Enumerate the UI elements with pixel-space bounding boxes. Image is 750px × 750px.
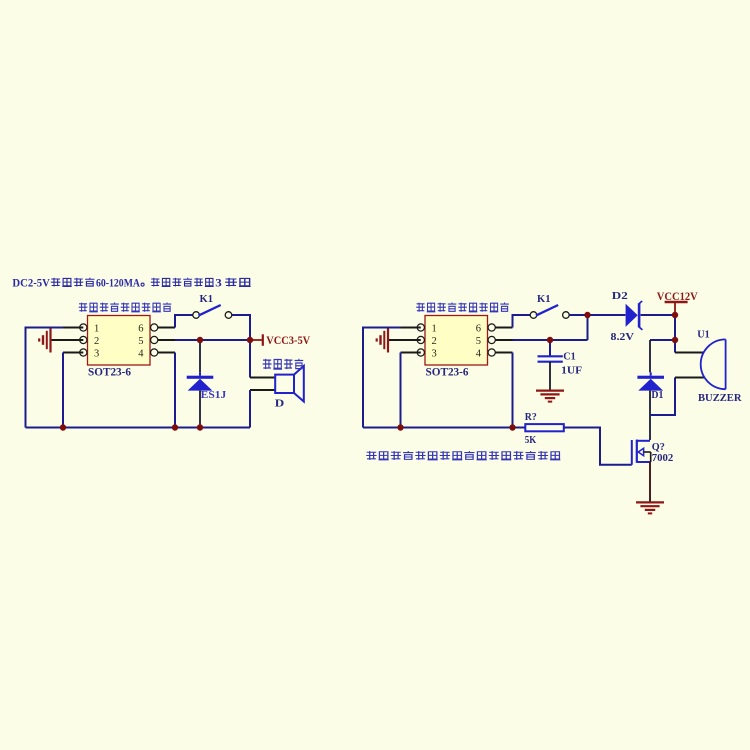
wire: node to D1 branch	[650, 339, 675, 341]
svg-text:BUZZER: BUZZER	[698, 393, 742, 404]
svg-text:4: 4	[138, 349, 144, 360]
svg-text:5K: 5K	[525, 435, 537, 446]
wire: speaker top branch	[249, 340, 251, 378]
IC IC2 pin numbers	[432, 324, 482, 360]
svg-text:1: 1	[432, 324, 437, 335]
capacitor C1 lower pin	[549, 362, 551, 391]
svg-text:ES1J: ES1J	[201, 390, 227, 401]
svg-text:K1: K1	[537, 294, 551, 305]
wire: speaker bottom down to rail	[249, 390, 251, 428]
ground below C1 (earth ground)	[536, 391, 564, 402]
wire: VCC node down	[674, 315, 676, 340]
diode D1	[637, 372, 664, 390]
wire: IC2 pin1 to left rail down	[363, 328, 401, 428]
IC2 pin 4 stub	[496, 352, 513, 354]
VCC3-5V power bar	[250, 334, 263, 346]
wire: C1 branch down	[549, 340, 551, 356]
svg-text:60-120MA: 60-120MA	[96, 277, 141, 289]
diode D (ES1J)	[187, 372, 214, 390]
wire: IC2 pin6 up to switch	[513, 315, 531, 328]
diode D1 label D1	[651, 390, 663, 401]
wire: bottom rail right circuit	[363, 427, 513, 429]
IC IC2 pin circles	[417, 324, 495, 356]
text: top annotation 导通电流	[51, 278, 95, 287]
wire: diode branch lower	[199, 391, 201, 428]
capacitor C1	[538, 356, 563, 361]
switch K1b lever	[536, 305, 558, 316]
ground below Q? (earth ground)	[636, 502, 664, 513]
svg-text:Q?: Q?	[652, 442, 665, 453]
buzzer U1 symbol	[701, 339, 726, 389]
svg-text:1UF: 1UF	[561, 365, 582, 376]
svg-text:3: 3	[432, 349, 437, 360]
switch K1b contact circles	[530, 312, 569, 319]
svg-text:4: 4	[476, 349, 482, 360]
wire: IC2 pin5 rail	[513, 339, 588, 341]
junction dots left circuit	[197, 337, 203, 343]
wire: buzzer top branch	[674, 340, 676, 353]
wire: pin4 down to bottom rail	[174, 353, 176, 428]
wire: IC2 pin3 down	[400, 353, 402, 428]
wire: D1 upper	[649, 340, 651, 372]
buzzer U1 top pin	[675, 352, 704, 354]
switch K1a lever	[199, 305, 221, 316]
svg-text:SOT23-6: SOT23-6	[88, 365, 131, 379]
svg-text:6: 6	[138, 324, 143, 335]
svg-text:5: 5	[138, 336, 143, 347]
text: IC2 label 无源蜂鸣器驱动芯片	[416, 302, 509, 311]
IC1 pin 6 stub	[158, 327, 175, 329]
wire: D2 anode	[588, 314, 626, 316]
IC1 pin 5 stub	[158, 339, 175, 341]
IC1 pin 2 stub	[51, 339, 84, 341]
wire: FET source to ground	[649, 462, 651, 502]
zener diode D2	[626, 301, 643, 330]
IC2 pin 6 stub	[496, 327, 513, 329]
text: IC1 label 无源蜂鸣器驱动芯片	[79, 302, 172, 311]
wire: pin3 down	[62, 353, 64, 428]
svg-text:D1: D1	[651, 390, 663, 401]
wire: D2 cathode to VCC node	[641, 314, 675, 316]
IC IC1 body SOT23-6	[88, 316, 151, 366]
switch K1a label K1	[200, 294, 214, 305]
VCC12V power bar	[665, 302, 688, 315]
IC2 pin 5 stub	[496, 339, 513, 341]
svg-text:6: 6	[476, 324, 481, 335]
speaker bottom pin	[250, 389, 275, 391]
svg-text:VCC12V: VCC12V	[657, 289, 698, 303]
text: top annotation 休眠功耗小于	[151, 278, 214, 287]
text: label 蜂鸣器片	[263, 359, 304, 369]
diode D (ES1J) label ES1J	[201, 390, 227, 401]
wire: resistor to FET gate	[564, 428, 632, 465]
wire: diode branch upper	[199, 340, 201, 372]
wire: buzzer bottom joins D1 branch	[650, 378, 675, 416]
IC IC1 pin circles	[80, 324, 158, 356]
svg-text:U1: U1	[697, 330, 710, 341]
svg-text:3: 3	[215, 277, 222, 289]
wire: pin6 up to switch	[175, 315, 193, 328]
switch K1a contact circles	[193, 312, 232, 319]
svg-text:3: 3	[94, 349, 99, 360]
wire: D1 lower down to FET drain	[649, 391, 651, 440]
text: top annotation 微安	[225, 278, 251, 287]
svg-text:7002: 7002	[652, 453, 674, 464]
IC IC1 pin numbers	[94, 324, 144, 360]
IC1 pin 4 stub	[158, 352, 175, 354]
svg-text:R?: R?	[525, 412, 537, 423]
svg-text:2: 2	[432, 336, 437, 347]
switch K1b label K1	[537, 294, 551, 305]
wire: switch K1b right	[569, 314, 587, 316]
wire: pin1 to left rail down to bottom	[26, 328, 64, 428]
wire: switch node down to pin5 rail	[587, 315, 589, 340]
MOSFET Q? symbol	[632, 440, 651, 465]
svg-text:VCC3-5V: VCC3-5V	[266, 333, 310, 347]
IC2 pin 1 stub	[401, 327, 421, 329]
ground at IC1 pin 2 (rotated earth ground)	[39, 328, 50, 353]
wire: switch K1a to VCC node	[232, 315, 250, 340]
wire: rail to resistor	[513, 427, 525, 429]
IC2 pin 3 stub	[401, 352, 421, 354]
buzzer U1 bottom pin	[675, 377, 705, 379]
svg-text:D2: D2	[612, 290, 629, 302]
ground at IC2 pin 2 (rotated earth ground)	[377, 328, 388, 353]
wire: pin5 rail	[175, 339, 250, 341]
svg-text:SOT23-6: SOT23-6	[426, 365, 469, 379]
svg-text:5: 5	[476, 336, 481, 347]
IC1 pin 3 stub	[63, 352, 83, 354]
svg-text:1: 1	[94, 324, 99, 335]
speaker top pin	[250, 377, 275, 379]
IC IC2 body SOT23-6	[425, 316, 488, 366]
wire: bottom rail left circuit	[26, 427, 251, 429]
svg-text:K1: K1	[200, 294, 214, 305]
junction dots right circuit	[584, 312, 590, 318]
svg-text:DC2-5V: DC2-5V	[12, 277, 50, 289]
speaker D symbol	[275, 366, 304, 402]
resistor R? body	[525, 424, 564, 431]
svg-text:8.2V: 8.2V	[611, 331, 635, 343]
IC2 pin 2 stub	[388, 339, 421, 341]
svg-text:D: D	[275, 397, 285, 409]
wire: IC2 pin4 down to bottom rail	[512, 353, 514, 428]
top annotation full stop	[141, 283, 144, 286]
IC1 pin 1 stub	[63, 327, 83, 329]
text: bottom annotation	[366, 451, 560, 460]
svg-text:C1: C1	[563, 352, 576, 363]
svg-text:2: 2	[94, 336, 99, 347]
